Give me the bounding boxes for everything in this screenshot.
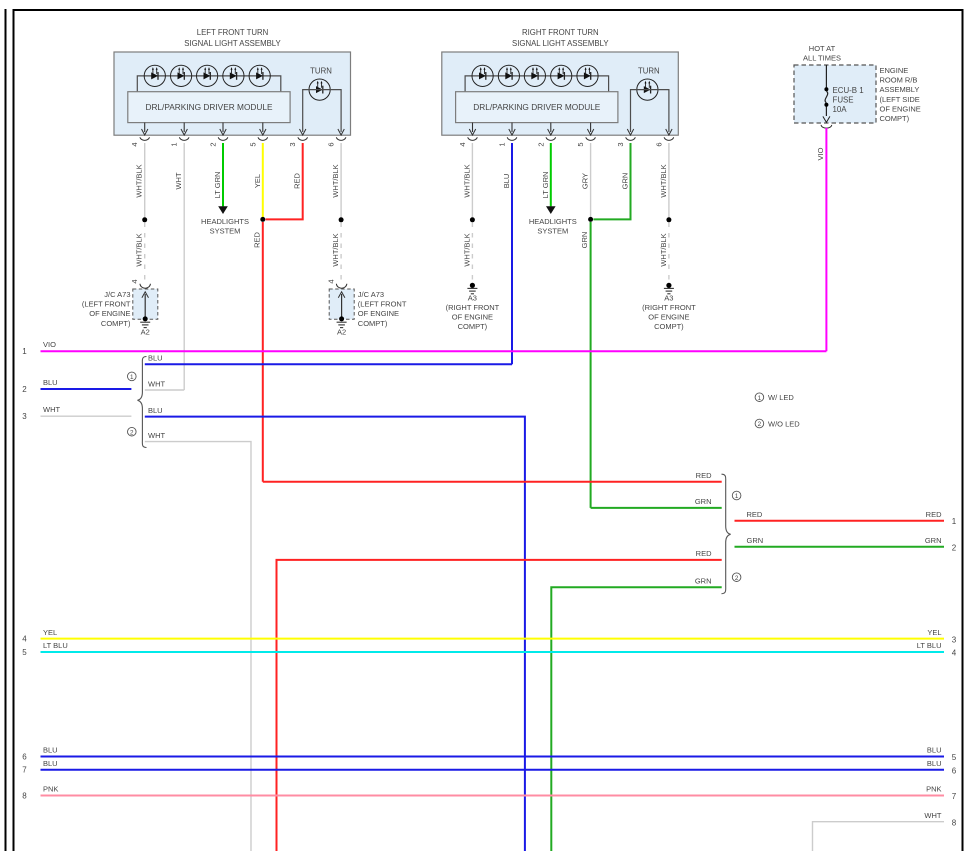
svg-text:A3: A3 (664, 293, 673, 302)
svg-text:(LEFT FRONT: (LEFT FRONT (82, 300, 131, 309)
junction connector J/C A73 (left, under pin 4) (133, 289, 158, 319)
J/C A73 connector socket (left) (140, 284, 150, 288)
fuse ECU-B 1 10A (823, 65, 830, 122)
svg-text:RED: RED (696, 471, 712, 480)
svg-text:2: 2 (735, 575, 739, 582)
svg-text:BLU: BLU (43, 746, 58, 755)
svg-text:PNK: PNK (43, 785, 58, 794)
svg-text:GRN: GRN (695, 497, 712, 506)
wire BLU variant1 (145, 363, 512, 365)
engine room R/B assembly box (794, 65, 876, 123)
svg-text:1: 1 (758, 395, 762, 402)
wire WHT variant1 (145, 389, 184, 391)
svg-text:6: 6 (22, 753, 27, 762)
svg-text:A2: A2 (141, 327, 150, 336)
svg-text:WHT/BLK: WHT/BLK (659, 164, 668, 197)
left pin 6 wire WHT/BLK (340, 143, 342, 217)
svg-text:GRN: GRN (695, 576, 712, 585)
wire GRN variant2 down (551, 587, 721, 851)
svg-text:ROOM R/B: ROOM R/B (880, 76, 918, 85)
left front turn signal light assembly U1 (114, 52, 351, 147)
legend marker 2 (755, 419, 764, 428)
svg-text:4: 4 (130, 279, 139, 283)
right options brace (722, 474, 731, 594)
svg-text:YEL: YEL (927, 628, 941, 637)
wire BLU row 7 (41, 769, 945, 771)
svg-text:SIGNAL LIGHT ASSEMBLY: SIGNAL LIGHT ASSEMBLY (512, 39, 609, 48)
svg-text:SYSTEM: SYSTEM (210, 226, 241, 235)
left pin 4 wire WHT/BLK (144, 143, 146, 217)
option marker 2 (left) (128, 427, 137, 436)
ground A3 (second) (666, 283, 671, 288)
wire PNK row (41, 795, 945, 797)
wire YEL row (41, 638, 945, 640)
right pin 5 wire GRY (590, 143, 592, 217)
svg-text:2: 2 (758, 421, 762, 428)
wire RED down from junction (262, 222, 264, 482)
svg-text:1: 1 (130, 374, 134, 381)
svg-text:OF ENGINE: OF ENGINE (89, 309, 130, 318)
svg-text:BLU: BLU (43, 378, 58, 387)
wire RED to right edge (735, 520, 945, 522)
svg-text:ENGINE: ENGINE (880, 66, 909, 75)
wire BLU variant2 down (145, 417, 525, 851)
svg-text:BLU: BLU (927, 746, 942, 755)
wire RED variant2 down (277, 560, 722, 851)
left pin 1 wire WHT (183, 143, 185, 390)
svg-text:GRN: GRN (925, 536, 942, 545)
svg-text:4: 4 (326, 279, 335, 283)
wire WHT bottom right (813, 822, 945, 851)
svg-text:HEADLIGHTS: HEADLIGHTS (201, 217, 249, 226)
svg-text:WHT/BLK: WHT/BLK (659, 233, 668, 266)
wire VIO row 1 (41, 350, 827, 352)
svg-text:4: 4 (952, 649, 957, 658)
svg-text:VIO: VIO (43, 340, 56, 349)
svg-text:GRN: GRN (621, 173, 630, 190)
svg-text:LT GRN: LT GRN (541, 172, 550, 199)
wire GRN variant1 to brace (591, 507, 722, 509)
junction node right pin 6 (666, 217, 671, 222)
svg-text:7: 7 (22, 766, 27, 775)
svg-text:RED: RED (252, 232, 261, 248)
svg-text:VIO: VIO (816, 147, 825, 160)
svg-text:3: 3 (952, 635, 957, 644)
left pin 5 wire YEL (262, 143, 264, 217)
svg-text:HOT AT: HOT AT (809, 44, 836, 53)
svg-text:ECU-B 1: ECU-B 1 (833, 86, 864, 95)
svg-text:(RIGHT FRONT: (RIGHT FRONT (642, 303, 696, 312)
svg-text:WHT/BLK: WHT/BLK (462, 233, 471, 266)
svg-text:(LEFT SIDE: (LEFT SIDE (880, 95, 920, 104)
svg-text:GRY: GRY (581, 173, 590, 189)
right pin 2 wire LT GRN (550, 143, 552, 206)
adjacent page edge (5, 9, 7, 851)
svg-text:7: 7 (952, 792, 957, 801)
legend marker 1 (755, 393, 764, 402)
svg-text:8: 8 (952, 818, 957, 827)
svg-text:BLU: BLU (927, 759, 942, 768)
svg-text:FUSE: FUSE (833, 96, 854, 105)
svg-text:WHT: WHT (924, 811, 941, 820)
svg-text:LT BLU: LT BLU (43, 641, 68, 650)
svg-text:4: 4 (22, 635, 27, 644)
svg-text:SYSTEM: SYSTEM (537, 226, 568, 235)
svg-text:RED: RED (293, 173, 302, 189)
svg-text:ALL TIMES: ALL TIMES (803, 54, 841, 63)
option marker 1 (right) (732, 491, 741, 500)
J/C A73 connector socket (right) (336, 284, 346, 288)
svg-text:COMPT): COMPT) (654, 322, 684, 331)
wire LT BLU row (41, 651, 945, 653)
headlights system arrow (left) (218, 206, 228, 214)
svg-text:YEL: YEL (253, 174, 262, 188)
wire GRN to right edge (735, 546, 945, 548)
right pin 1 wire BLU (511, 143, 513, 364)
junction node headlight feed (right) (588, 217, 593, 222)
svg-text:1: 1 (735, 493, 739, 500)
svg-text:RED: RED (747, 510, 763, 519)
svg-text:YEL: YEL (43, 628, 57, 637)
svg-text:WHT: WHT (174, 172, 183, 189)
svg-text:LT BLU: LT BLU (917, 641, 942, 650)
svg-text:2: 2 (22, 385, 27, 394)
svg-text:HEADLIGHTS: HEADLIGHTS (529, 217, 577, 226)
svg-text:OF ENGINE: OF ENGINE (880, 104, 921, 113)
wire VIO from fuse (825, 128, 827, 351)
junction connector J/C A73 (under pin 6) (329, 289, 354, 319)
right pin 6 wire WHT/BLK (668, 143, 670, 217)
svg-text:GRN: GRN (580, 232, 589, 249)
wire RED variant1 to brace (263, 481, 722, 483)
left options brace (138, 357, 147, 448)
svg-text:WHT: WHT (43, 405, 60, 414)
fuse output socket (821, 125, 832, 128)
wire WHT variant2 down (145, 442, 251, 851)
left pin 2 wire LT GRN (222, 143, 224, 206)
svg-text:5: 5 (22, 648, 27, 657)
wire BLU row 6 (41, 756, 945, 758)
junction node left pin 4 (142, 217, 147, 222)
svg-text:BLU: BLU (148, 406, 163, 415)
svg-text:A2: A2 (337, 327, 346, 336)
svg-text:3: 3 (22, 412, 27, 421)
svg-text:10A: 10A (833, 105, 848, 114)
svg-text:WHT/BLK: WHT/BLK (135, 233, 144, 266)
wire WHT row 3 stub (41, 415, 132, 417)
option marker 1 (left) (128, 372, 137, 381)
svg-text:8: 8 (22, 792, 27, 801)
svg-text:WHT/BLK: WHT/BLK (331, 233, 340, 266)
svg-text:6: 6 (952, 766, 957, 775)
svg-text:A3: A3 (468, 293, 477, 302)
svg-text:2: 2 (952, 544, 957, 553)
right pin 4 wire WHT/BLK (471, 143, 473, 217)
svg-text:BLU: BLU (148, 354, 163, 363)
headlights system arrow (right) (546, 206, 556, 214)
svg-text:COMPT): COMPT) (358, 319, 388, 328)
svg-text:J/C A73: J/C A73 (358, 290, 384, 299)
svg-text:(LEFT FRONT: (LEFT FRONT (358, 300, 407, 309)
svg-text:RED: RED (696, 549, 712, 558)
svg-text:BLU: BLU (43, 759, 58, 768)
option marker 2 (right) (732, 573, 741, 582)
svg-text:COMPT): COMPT) (101, 319, 131, 328)
svg-text:(RIGHT FRONT: (RIGHT FRONT (446, 303, 500, 312)
svg-text:RIGHT FRONT TURN: RIGHT FRONT TURN (522, 28, 599, 37)
svg-text:COMPT): COMPT) (880, 114, 910, 123)
svg-text:OF ENGINE: OF ENGINE (452, 313, 493, 322)
svg-text:LT GRN: LT GRN (213, 172, 222, 199)
svg-text:SIGNAL LIGHT ASSEMBLY: SIGNAL LIGHT ASSEMBLY (184, 39, 281, 48)
svg-text:OF ENGINE: OF ENGINE (358, 309, 399, 318)
svg-text:GRN: GRN (747, 536, 764, 545)
junction node right pin 4 (470, 217, 475, 222)
ground A2 (left) (140, 322, 150, 327)
left pin 3 wire RED (266, 143, 303, 219)
svg-text:LEFT FRONT TURN: LEFT FRONT TURN (197, 28, 268, 37)
svg-text:2: 2 (130, 429, 134, 436)
ground A2 (second) (337, 322, 347, 327)
svg-text:BLU: BLU (502, 174, 511, 189)
wire BLU row 2 stub (41, 388, 132, 390)
ground A3 (first) (470, 283, 475, 288)
svg-text:J/C A73: J/C A73 (104, 290, 130, 299)
svg-text:OF ENGINE: OF ENGINE (648, 313, 689, 322)
svg-text:WHT/BLK: WHT/BLK (462, 164, 471, 197)
junction node headlight feed (left) (260, 217, 265, 222)
junction node left pin 6 (339, 217, 344, 222)
wire GRN down from junction (590, 222, 592, 508)
right front turn signal light assembly U2 (442, 52, 679, 147)
svg-text:WHT: WHT (148, 431, 165, 440)
right pin 3 wire GRN (593, 143, 630, 219)
svg-text:WHT: WHT (148, 379, 165, 388)
svg-text:WHT/BLK: WHT/BLK (331, 164, 340, 197)
svg-text:1: 1 (22, 347, 27, 356)
svg-text:W/O LED: W/O LED (768, 420, 800, 429)
svg-text:W/ LED: W/ LED (768, 393, 794, 402)
svg-text:1: 1 (952, 517, 957, 526)
svg-text:RED: RED (926, 510, 942, 519)
svg-text:5: 5 (952, 753, 957, 762)
svg-text:WHT/BLK: WHT/BLK (135, 164, 144, 197)
svg-text:ASSEMBLY: ASSEMBLY (880, 85, 920, 94)
svg-text:COMPT): COMPT) (458, 322, 488, 331)
svg-text:PNK: PNK (926, 785, 941, 794)
